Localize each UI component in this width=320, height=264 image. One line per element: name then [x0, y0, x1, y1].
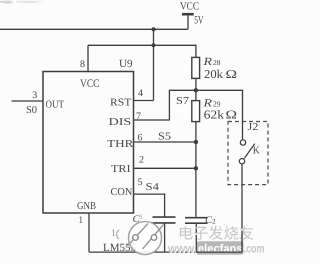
svg-text:J2: J2 — [248, 122, 259, 133]
svg-text:5: 5 — [138, 177, 143, 188]
svg-text:www.: www. — [167, 242, 197, 256]
svg-text:THR: THR — [107, 139, 134, 150]
svg-text:.com: .com — [244, 242, 265, 256]
svg-text:4: 4 — [138, 88, 143, 99]
svg-text:S0: S0 — [26, 105, 37, 116]
svg-text:VCC: VCC — [180, 1, 199, 13]
svg-text:Ω: Ω — [226, 67, 238, 81]
svg-text:VCC: VCC — [80, 78, 100, 90]
svg-text:5V: 5V — [194, 14, 203, 26]
svg-text:8: 8 — [80, 59, 85, 70]
svg-text:62k: 62k — [204, 108, 225, 122]
svg-text:S5: S5 — [158, 132, 171, 143]
svg-text:S4: S4 — [146, 182, 160, 193]
svg-text:K: K — [253, 146, 260, 157]
svg-text:1: 1 — [79, 215, 84, 226]
svg-text:RST: RST — [110, 98, 132, 109]
svg-text:28: 28 — [213, 58, 221, 67]
svg-text:elecfans: elecfans — [198, 242, 243, 256]
svg-text:OUT: OUT — [46, 100, 65, 111]
svg-text:S7: S7 — [176, 96, 189, 107]
svg-text:2: 2 — [139, 155, 144, 166]
svg-text:Ω: Ω — [226, 108, 238, 122]
svg-text:3: 3 — [139, 213, 143, 221]
svg-text:3: 3 — [32, 90, 37, 101]
svg-text:1: 1 — [111, 228, 116, 239]
svg-text:TRI: TRI — [111, 164, 131, 175]
svg-text:7: 7 — [136, 111, 141, 122]
svg-text:2: 2 — [212, 218, 216, 226]
svg-text:20k: 20k — [204, 67, 223, 81]
svg-text:U9: U9 — [119, 58, 133, 70]
svg-text:CON: CON — [111, 187, 133, 198]
svg-text:GNB: GNB — [77, 201, 96, 212]
svg-text:DIS: DIS — [109, 117, 132, 128]
svg-text:6: 6 — [138, 133, 143, 144]
